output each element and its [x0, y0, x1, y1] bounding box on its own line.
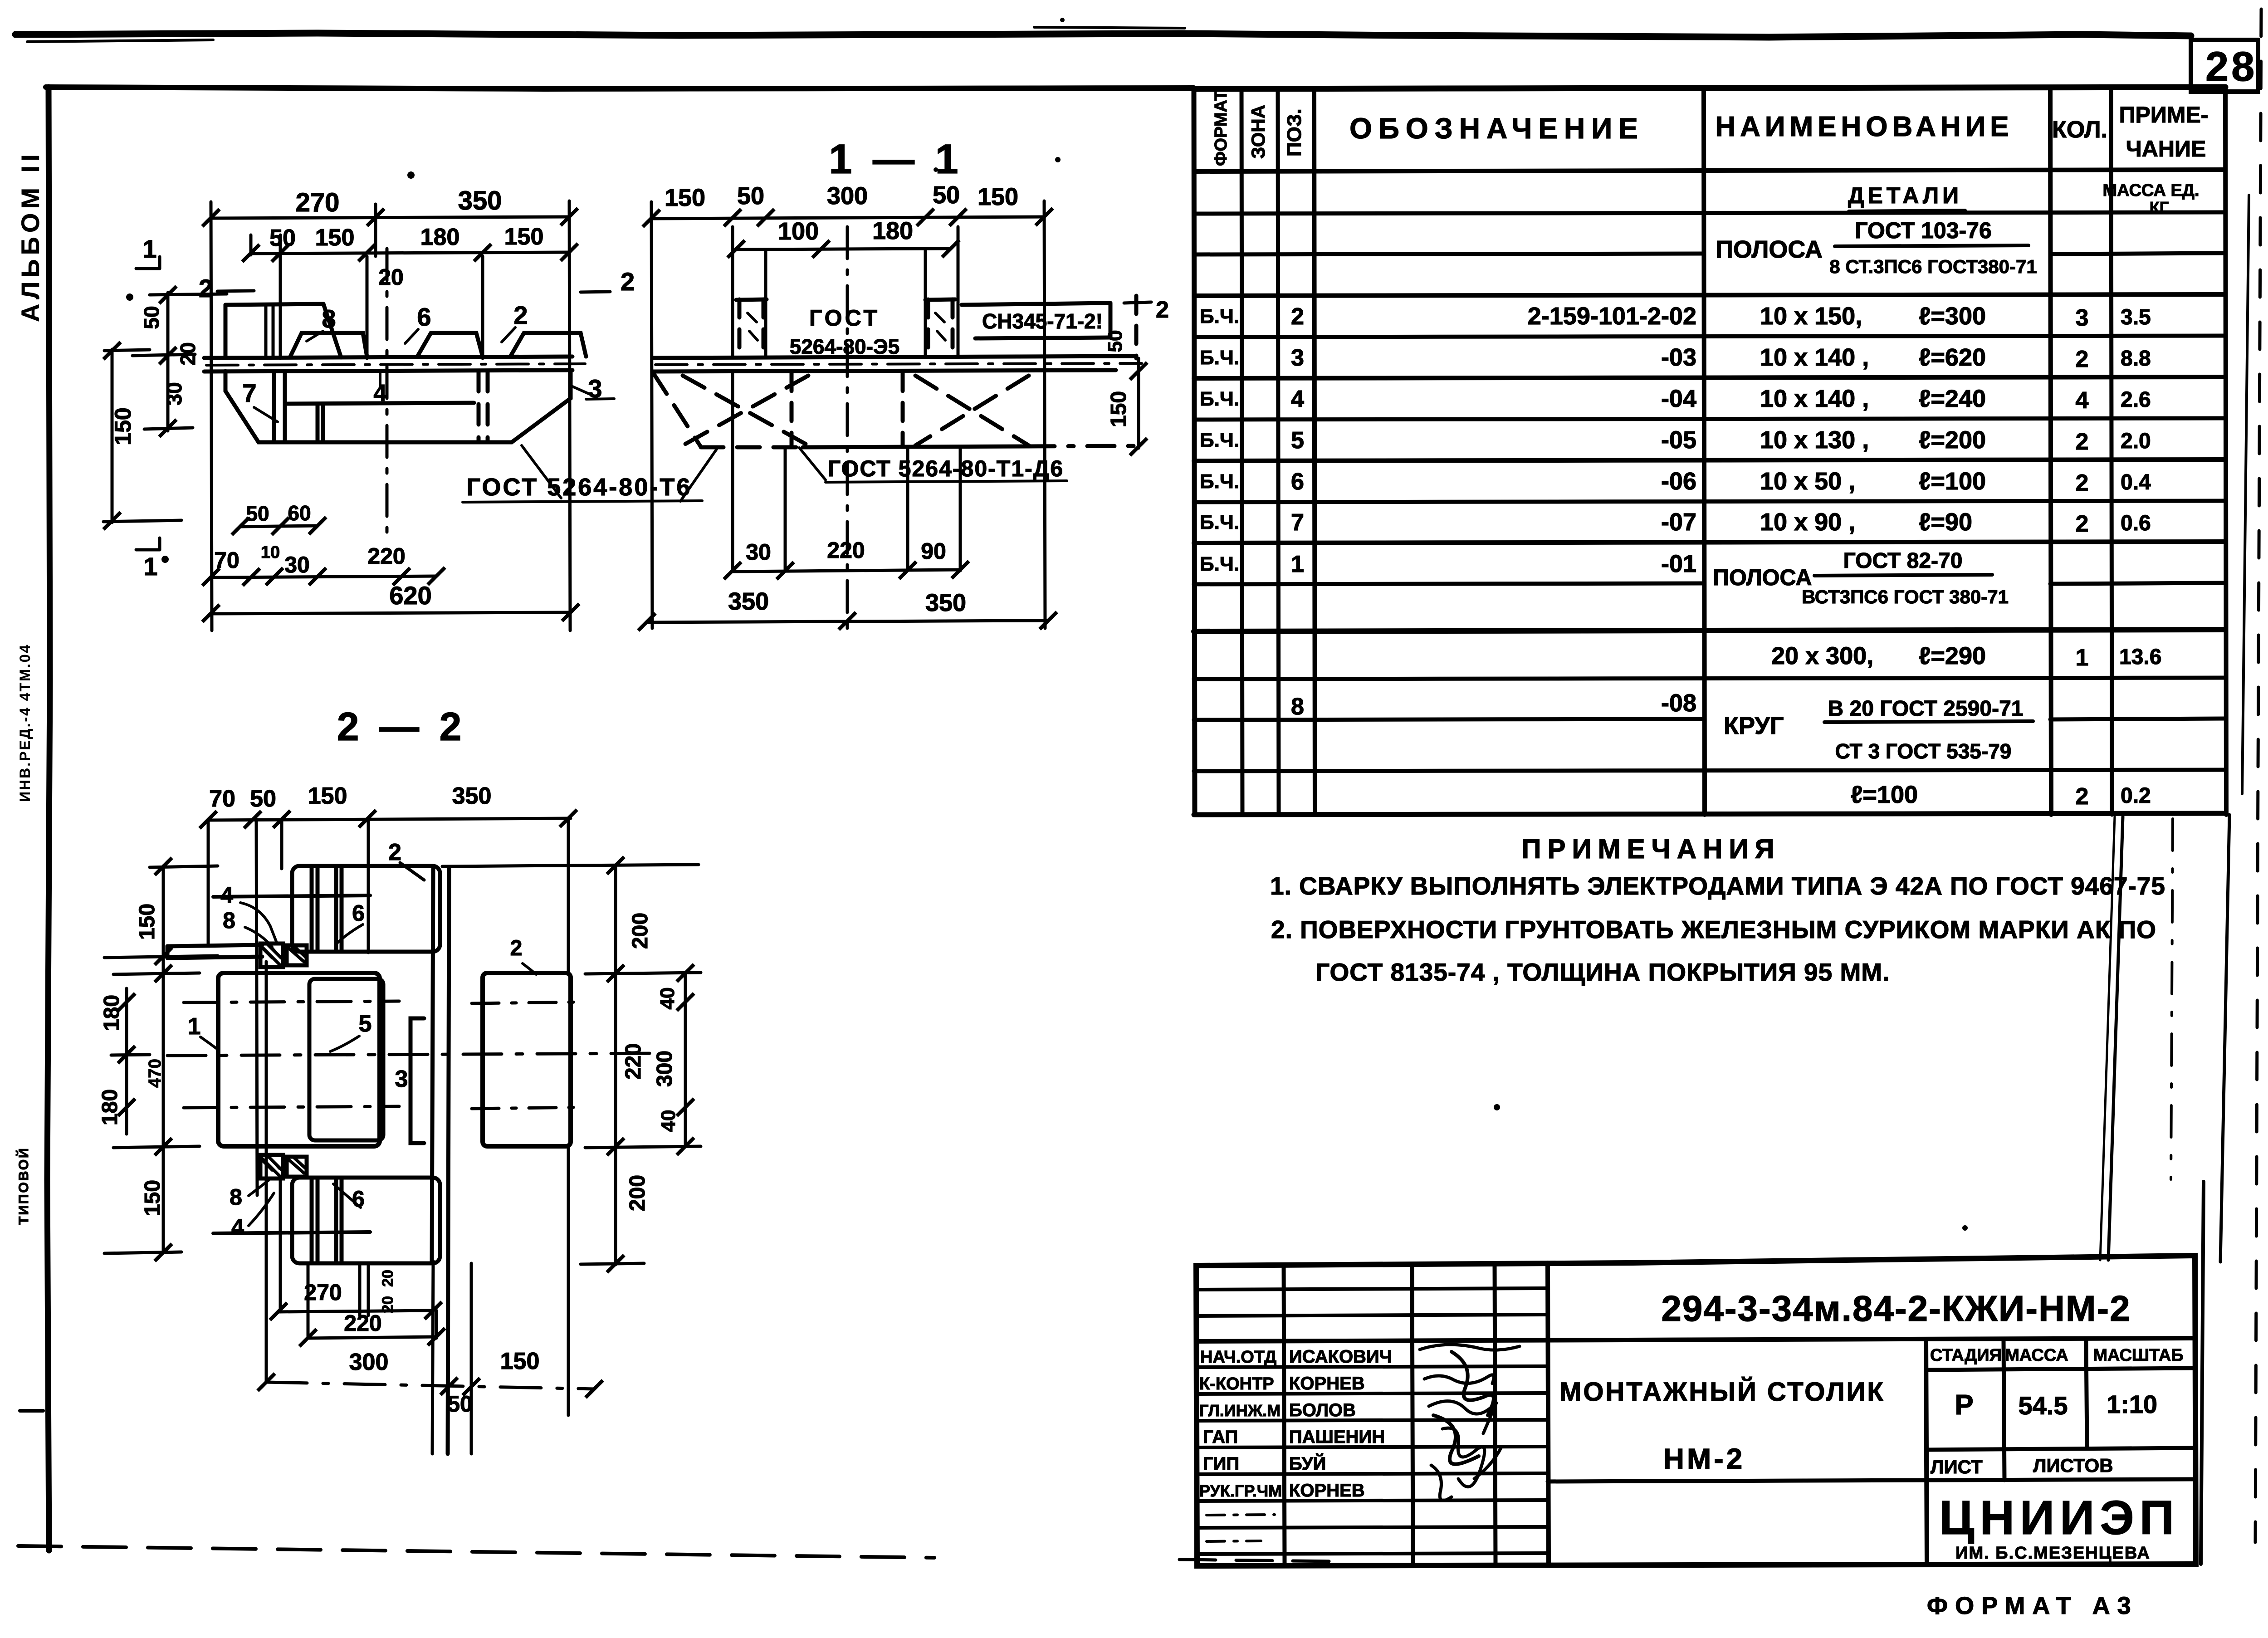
- svg-text:150: 150: [665, 184, 705, 211]
- svg-text:НАИМЕНОВАНИЕ: НАИМЕНОВАНИЕ: [1715, 111, 2013, 142]
- svg-text:ДЕТАЛИ: ДЕТАЛИ: [1848, 183, 1962, 208]
- svg-text:СТАДИЯ: СТАДИЯ: [1930, 1346, 2002, 1365]
- svg-text:2: 2: [388, 839, 401, 865]
- svg-text:294-3-34м.84-2-КЖИ-НМ-2: 294-3-34м.84-2-КЖИ-НМ-2: [1661, 1288, 2131, 1329]
- svg-text:150: 150: [135, 904, 159, 940]
- svg-text:1. СВАРКУ ВЫПОЛНЯТЬ ЭЛЕКТРО: 1. СВАРКУ ВЫПОЛНЯТЬ ЭЛЕКТРОДАМИ ТИПА Э 4…: [1270, 872, 2165, 900]
- svg-text:2: 2: [2076, 470, 2089, 496]
- svg-text:КРУГ: КРУГ: [1724, 712, 1784, 739]
- svg-text:300: 300: [827, 182, 868, 210]
- svg-text:ГОСТ 5264-80-Т1-Д6: ГОСТ 5264-80-Т1-Д6: [828, 456, 1064, 481]
- svg-text:60: 60: [288, 501, 311, 525]
- svg-text:7: 7: [242, 379, 256, 407]
- svg-text:2 — 2: 2 — 2: [337, 704, 466, 749]
- svg-text:ℓ=620: ℓ=620: [1919, 344, 1986, 371]
- svg-text:4: 4: [374, 380, 387, 406]
- svg-text:150: 150: [141, 1180, 165, 1216]
- svg-text:1: 1: [188, 1013, 201, 1040]
- svg-text:2: 2: [2076, 783, 2089, 810]
- svg-text:Б.Ч.: Б.Ч.: [1200, 511, 1239, 533]
- svg-text:РУК.ГР.ЧМ: РУК.ГР.ЧМ: [1199, 1482, 1282, 1500]
- svg-text:350: 350: [925, 589, 966, 616]
- svg-text:1:10: 1:10: [2107, 1390, 2157, 1418]
- svg-text:10 х 140 ,: 10 х 140 ,: [1760, 344, 1869, 371]
- svg-text:150: 150: [500, 1348, 540, 1374]
- svg-text:1: 1: [1291, 551, 1304, 577]
- svg-text:Б.Ч.: Б.Ч.: [1200, 553, 1239, 575]
- svg-text:54.5: 54.5: [2019, 1391, 2068, 1420]
- svg-text:0.4: 0.4: [2121, 470, 2151, 494]
- svg-text:3.5: 3.5: [2121, 305, 2151, 329]
- svg-text:0.2: 0.2: [2121, 784, 2151, 808]
- svg-text:ИСАКОВИЧ: ИСАКОВИЧ: [1289, 1347, 1392, 1367]
- svg-text:Р: Р: [1955, 1389, 1973, 1421]
- svg-text:150: 150: [308, 783, 347, 809]
- svg-text:270: 270: [296, 188, 340, 217]
- svg-text:СН345-71-2!: СН345-71-2!: [982, 309, 1103, 333]
- svg-text:8: 8: [230, 1184, 242, 1210]
- svg-text:70: 70: [214, 548, 240, 573]
- svg-text:ГОСТ 5264-80-Т6: ГОСТ 5264-80-Т6: [467, 474, 692, 501]
- svg-text:2: 2: [513, 301, 528, 329]
- svg-text:180: 180: [100, 995, 124, 1031]
- svg-text:50: 50: [269, 225, 296, 251]
- svg-text:10 х 150,: 10 х 150,: [1760, 303, 1862, 330]
- svg-text:150: 150: [504, 224, 544, 250]
- svg-text:4: 4: [2076, 387, 2089, 414]
- svg-text:ФОРМАТ: ФОРМАТ: [1212, 90, 1231, 166]
- svg-text:28: 28: [2205, 44, 2257, 90]
- svg-text:4: 4: [231, 1214, 244, 1240]
- svg-text:220: 220: [367, 543, 405, 569]
- svg-text:2: 2: [2076, 511, 2089, 537]
- svg-text:МАССА: МАССА: [2005, 1346, 2068, 1365]
- svg-text:ЛИСТ: ЛИСТ: [1931, 1456, 1983, 1477]
- svg-text:ГОСТ 8135-74 , ТОЛЩИНА ПОКР: ГОСТ 8135-74 , ТОЛЩИНА ПОКРЫТИЯ 95 ММ.: [1315, 958, 1890, 986]
- svg-text:2.6: 2.6: [2121, 388, 2151, 412]
- svg-text:1: 1: [142, 235, 156, 263]
- svg-text:АЛЬБОМ II: АЛЬБОМ II: [16, 150, 44, 322]
- svg-text:200: 200: [626, 1175, 650, 1211]
- svg-text:8: 8: [1291, 694, 1304, 720]
- svg-text:90: 90: [921, 538, 946, 564]
- svg-text:ℓ=100: ℓ=100: [1919, 468, 1986, 495]
- svg-text:КОЛ.: КОЛ.: [2052, 117, 2107, 143]
- svg-text:8.8: 8.8: [2121, 347, 2151, 371]
- svg-text:МАСШТАБ: МАСШТАБ: [2093, 1346, 2183, 1365]
- svg-text:2: 2: [1156, 297, 1169, 323]
- svg-text:ВСТ3ПС6 ГОСТ 380-71: ВСТ3ПС6 ГОСТ 380-71: [1802, 586, 2009, 607]
- svg-text:5264-80-Э5: 5264-80-Э5: [790, 335, 899, 358]
- svg-text:Б.Ч.: Б.Ч.: [1200, 429, 1239, 451]
- svg-text:ℓ=240: ℓ=240: [1919, 385, 1986, 412]
- svg-text:30: 30: [284, 552, 310, 577]
- svg-text:50: 50: [447, 1391, 473, 1417]
- svg-text:КОРНЕВ: КОРНЕВ: [1289, 1481, 1365, 1501]
- svg-text:200: 200: [628, 913, 652, 949]
- svg-text:10 х 140 ,: 10 х 140 ,: [1760, 385, 1869, 412]
- svg-text:ЛИСТОВ: ЛИСТОВ: [2033, 1455, 2113, 1476]
- svg-text:ЦНИИЭП: ЦНИИЭП: [1939, 1491, 2180, 1545]
- svg-text:150: 150: [1107, 391, 1131, 427]
- svg-text:220: 220: [344, 1310, 381, 1336]
- svg-text:-08: -08: [1661, 689, 1696, 717]
- svg-text:50: 50: [933, 181, 960, 209]
- svg-text:470: 470: [146, 1059, 165, 1087]
- svg-text:100: 100: [778, 218, 819, 245]
- svg-text:10: 10: [261, 543, 280, 562]
- svg-text:ПОЛОСА: ПОЛОСА: [1713, 565, 1812, 590]
- svg-text:40: 40: [656, 988, 679, 1010]
- svg-text:3: 3: [2076, 305, 2089, 331]
- svg-text:150: 150: [978, 183, 1018, 210]
- svg-text:В 20 ГОСТ 2590-71: В 20 ГОСТ 2590-71: [1828, 697, 2024, 721]
- svg-text:150: 150: [315, 225, 355, 251]
- svg-text:БУЙ: БУЙ: [1289, 1453, 1326, 1474]
- svg-text:50: 50: [250, 786, 276, 812]
- svg-text:ГАП: ГАП: [1203, 1427, 1238, 1447]
- svg-text:2: 2: [510, 936, 523, 960]
- svg-text:КОРНЕВ: КОРНЕВ: [1289, 1374, 1365, 1394]
- svg-text:ГОСТ 82-70: ГОСТ 82-70: [1843, 549, 1963, 573]
- svg-text:ГОСТ 103-76: ГОСТ 103-76: [1855, 218, 1992, 243]
- svg-text:2.0: 2.0: [2121, 429, 2151, 453]
- svg-text:5: 5: [1291, 427, 1304, 454]
- svg-text:ИНВ.РЕД.-4 4ТМ.04: ИНВ.РЕД.-4 4ТМ.04: [17, 644, 33, 802]
- svg-text:2: 2: [1291, 303, 1304, 330]
- svg-text:-03: -03: [1661, 344, 1696, 371]
- svg-text:20: 20: [176, 342, 200, 365]
- svg-text:8: 8: [223, 908, 235, 933]
- svg-text:-04: -04: [1661, 385, 1696, 412]
- svg-text:СТ 3 ГОСТ 535-79: СТ 3 ГОСТ 535-79: [1835, 739, 2012, 763]
- svg-text:ЗОНА: ЗОНА: [1247, 105, 1269, 159]
- svg-text:8 СТ.3ПС6 ГОСТ380-71: 8 СТ.3ПС6 ГОСТ380-71: [1829, 256, 2037, 277]
- svg-text:ПАШЕНИН: ПАШЕНИН: [1289, 1427, 1385, 1447]
- svg-text:НАЧ.ОТД: НАЧ.ОТД: [1200, 1348, 1276, 1367]
- svg-text:3: 3: [588, 374, 602, 403]
- svg-text:300: 300: [349, 1349, 389, 1375]
- svg-text:ИМ. Б.С.МЕЗЕНЦЕВА: ИМ. Б.С.МЕЗЕНЦЕВА: [1955, 1544, 2151, 1563]
- svg-text:350: 350: [458, 186, 502, 215]
- svg-text:270: 270: [304, 1280, 342, 1305]
- svg-text:50: 50: [1104, 330, 1126, 352]
- svg-text:620: 620: [389, 581, 431, 610]
- svg-text:ℓ=100: ℓ=100: [1851, 781, 1918, 808]
- svg-text:10 х 130 ,: 10 х 130 ,: [1760, 426, 1869, 454]
- svg-text:1: 1: [2076, 645, 2089, 671]
- svg-text:4: 4: [220, 882, 233, 908]
- svg-text:2: 2: [621, 267, 635, 296]
- svg-text:-05: -05: [1661, 426, 1696, 454]
- svg-text:2: 2: [2076, 346, 2089, 372]
- svg-text:40: 40: [657, 1110, 679, 1132]
- svg-text:БОЛОВ: БОЛОВ: [1289, 1400, 1356, 1420]
- svg-text:ПОЗ.: ПОЗ.: [1283, 108, 1305, 156]
- svg-text:Б.Ч.: Б.Ч.: [1200, 470, 1239, 493]
- svg-text:0.6: 0.6: [2121, 511, 2151, 535]
- svg-text:1: 1: [143, 552, 157, 581]
- svg-text:ПРИМЕ-: ПРИМЕ-: [2119, 102, 2209, 127]
- svg-text:ФОРМАТ А3: ФОРМАТ А3: [1927, 1592, 2138, 1619]
- svg-text:ЧАНИЕ: ЧАНИЕ: [2126, 136, 2206, 161]
- svg-text:7: 7: [1291, 509, 1304, 536]
- svg-text:МАССА ЕД.: МАССА ЕД.: [2102, 181, 2199, 200]
- svg-text:180: 180: [872, 217, 913, 244]
- svg-text:1 — 1: 1 — 1: [829, 136, 963, 182]
- svg-text:МОНТАЖНЫЙ СТОЛИК: МОНТАЖНЫЙ СТОЛИК: [1559, 1377, 1885, 1407]
- svg-text:20: 20: [378, 264, 404, 290]
- svg-text:20 х 300,: 20 х 300,: [1771, 642, 1873, 670]
- svg-text:6: 6: [417, 303, 431, 331]
- svg-text:ℓ=300: ℓ=300: [1919, 303, 1986, 330]
- svg-text:Б.Ч.: Б.Ч.: [1200, 305, 1239, 328]
- svg-text:30: 30: [746, 539, 771, 565]
- svg-text:3: 3: [1291, 345, 1304, 371]
- svg-text:ℓ=200: ℓ=200: [1919, 426, 1986, 454]
- svg-text:НМ-2: НМ-2: [1663, 1442, 1745, 1475]
- svg-text:13.6: 13.6: [2119, 645, 2161, 669]
- svg-text:70: 70: [209, 786, 235, 812]
- svg-text:10 х 90 ,: 10 х 90 ,: [1760, 509, 1855, 536]
- svg-text:ОБОЗНАЧЕНИЕ: ОБОЗНАЧЕНИЕ: [1349, 112, 1644, 145]
- svg-text:50: 50: [246, 502, 269, 525]
- svg-text:ГОСТ: ГОСТ: [809, 305, 880, 331]
- svg-text:Б.Ч.: Б.Ч.: [1200, 388, 1239, 410]
- svg-text:5: 5: [359, 1011, 372, 1037]
- svg-text:350: 350: [728, 588, 769, 615]
- svg-text:2: 2: [2076, 429, 2089, 455]
- svg-text:20: 20: [379, 1270, 396, 1287]
- svg-text:2: 2: [199, 274, 213, 303]
- svg-text:220: 220: [621, 1043, 645, 1080]
- svg-text:2-159-101-2-02: 2-159-101-2-02: [1528, 303, 1696, 330]
- svg-text:180: 180: [98, 1089, 122, 1125]
- svg-text:8: 8: [322, 304, 336, 333]
- svg-text:6: 6: [352, 900, 365, 926]
- svg-text:ℓ=290: ℓ=290: [1919, 642, 1986, 670]
- svg-text:2. ПОВЕРХНОСТИ ГРУНТОВАТЬ Ж: 2. ПОВЕРХНОСТИ ГРУНТОВАТЬ ЖЕЛЕЗНЫМ СУРИК…: [1271, 915, 2156, 944]
- svg-text:10 х 50 ,: 10 х 50 ,: [1760, 468, 1855, 495]
- svg-text:ПРИМЕЧАНИЯ: ПРИМЕЧАНИЯ: [1521, 834, 1780, 864]
- svg-text:Б.Ч.: Б.Ч.: [1200, 347, 1239, 369]
- svg-text:220: 220: [827, 538, 865, 563]
- svg-text:150: 150: [110, 407, 136, 445]
- svg-text:4: 4: [1291, 386, 1304, 412]
- svg-text:-01: -01: [1661, 550, 1696, 577]
- svg-text:КГ: КГ: [2150, 198, 2169, 217]
- svg-text:3: 3: [395, 1066, 408, 1092]
- svg-text:-07: -07: [1661, 509, 1696, 536]
- svg-text:ПОЛОСА: ПОЛОСА: [1716, 236, 1823, 263]
- svg-text:ℓ=90: ℓ=90: [1919, 509, 1972, 536]
- svg-text:50: 50: [737, 182, 764, 210]
- svg-text:ГЛ.ИНЖ.М: ГЛ.ИНЖ.М: [1199, 1401, 1281, 1420]
- svg-text:50: 50: [140, 306, 163, 329]
- svg-text:ТИПОВОЙ: ТИПОВОЙ: [16, 1147, 31, 1225]
- svg-text:180: 180: [420, 224, 460, 250]
- svg-text:-06: -06: [1661, 468, 1696, 495]
- svg-text:6: 6: [1291, 469, 1304, 495]
- svg-text:300: 300: [653, 1051, 677, 1087]
- svg-text:ГИП: ГИП: [1203, 1454, 1239, 1474]
- svg-text:350: 350: [452, 783, 492, 809]
- svg-text:30: 30: [162, 382, 186, 405]
- svg-text:6: 6: [352, 1186, 365, 1212]
- svg-text:К-КОНТР: К-КОНТР: [1199, 1374, 1274, 1394]
